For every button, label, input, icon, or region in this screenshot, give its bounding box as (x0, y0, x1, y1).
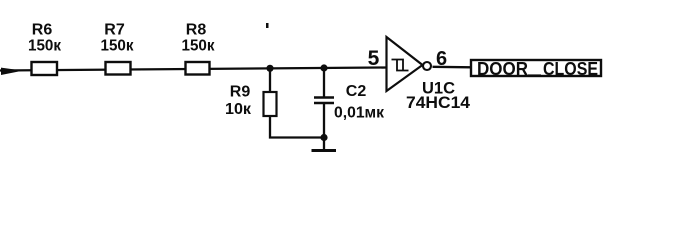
node junction B (320, 64, 327, 71)
svg-text:CLOSE: CLOSE (543, 59, 598, 79)
node junction C (320, 134, 327, 141)
svg-text:10к: 10к (225, 101, 252, 118)
svg-text:R9: R9 (230, 84, 251, 101)
wire main horizontal (0, 68, 387, 71)
svg-text:DOOR: DOOR (477, 59, 528, 79)
svg-text:150к: 150к (28, 38, 62, 55)
svg-text:5: 5 (368, 47, 380, 70)
resistor R8 (186, 62, 210, 75)
node DOOR_CLOSE label box (471, 60, 601, 76)
resistor R6 (32, 62, 58, 75)
schmitt hysteresis symbol (392, 60, 409, 71)
output bubble (423, 62, 431, 70)
op-amp U1C inverter triangle (387, 37, 423, 91)
wire R9 top (269, 68, 271, 92)
resistor R7 (106, 62, 131, 75)
svg-text:0,01мк: 0,01мк (334, 105, 385, 122)
wire output (433, 66, 472, 69)
svg-text:R7: R7 (104, 22, 125, 39)
svg-text:74HC14: 74HC14 (406, 93, 471, 112)
svg-text:C2: C2 (346, 83, 367, 100)
wire C2 bottom (323, 104, 325, 138)
svg-text:150к: 150к (101, 38, 135, 55)
svg-text:R6: R6 (32, 22, 53, 39)
wire R9 bottom (270, 116, 324, 138)
wire ground stem (323, 138, 325, 150)
wire input arrow (1, 68, 23, 75)
capacitor C2 (314, 96, 334, 99)
node junction A (266, 65, 273, 72)
wire C2 top (323, 68, 325, 97)
svg-text:150к: 150к (182, 38, 216, 55)
resistor R9 (264, 92, 277, 116)
ground (312, 149, 337, 152)
svg-text:R8: R8 (186, 22, 207, 39)
speck artifact (266, 23, 269, 28)
